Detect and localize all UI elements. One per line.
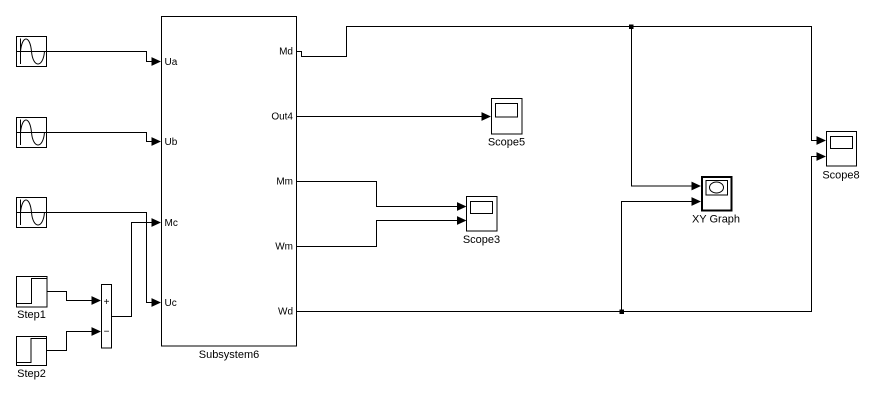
arrowhead into Ub port	[152, 137, 162, 146]
svg-text:Mc: Mc	[165, 218, 178, 229]
wire branch Md to XY Graph input1	[632, 27, 694, 187]
svg-text:XY Graph: XY Graph	[692, 214, 740, 226]
arrowhead into Scope8 input1	[817, 136, 827, 145]
svg-text:Wd: Wd	[278, 307, 293, 318]
junction node on Wd wire	[620, 310, 625, 315]
svg-text:Scope5: Scope5	[488, 137, 525, 149]
svg-text:−: −	[104, 327, 110, 338]
wire Sine1 to Ua	[47, 52, 154, 62]
scope block Scope5	[492, 99, 523, 135]
step source block Step1	[17, 277, 48, 308]
svg-text:Subsystem6: Subsystem6	[199, 349, 260, 361]
svg-text:Md: Md	[279, 47, 293, 58]
svg-text:Ua: Ua	[165, 57, 178, 68]
wire Sum output to Mc	[112, 223, 154, 317]
arrowhead into Uc port	[152, 298, 162, 307]
step source block Step2	[17, 337, 47, 366]
xy graph block	[702, 177, 732, 211]
arrowhead into Mc port	[152, 218, 162, 227]
svg-text:Out4: Out4	[271, 112, 293, 123]
svg-text:Uc: Uc	[165, 298, 177, 309]
svg-text:Wm: Wm	[275, 242, 293, 253]
sine wave source block Sine3	[17, 198, 47, 228]
wire Md to Scope8 input1 (top route)	[297, 27, 818, 141]
arrowhead into Sum plus input	[92, 296, 102, 305]
svg-text:Mm: Mm	[276, 177, 293, 188]
scope block Scope3	[467, 197, 498, 232]
subsystem block Subsystem6	[162, 17, 297, 347]
wire Sine3 to Uc (crosses down)	[47, 213, 154, 303]
junction node on Md wire	[629, 25, 634, 30]
wire branch Wd to XY Graph input2	[622, 202, 694, 312]
wire Step1 to Sum plus input	[47, 292, 93, 301]
svg-text:Ub: Ub	[165, 137, 178, 148]
sum block	[102, 285, 112, 349]
svg-text:Step1: Step1	[17, 309, 46, 321]
arrowhead into XY Graph input1	[692, 182, 702, 191]
arrowhead into Scope8 input2	[817, 152, 827, 161]
svg-text:Scope8: Scope8	[822, 170, 859, 182]
sine wave source block Sine2	[17, 118, 47, 148]
svg-text:Step2: Step2	[17, 368, 46, 380]
arrowhead into XY Graph input2	[692, 197, 702, 206]
wire Wm to Scope3 input2	[297, 221, 458, 247]
svg-text:+: +	[104, 297, 110, 308]
wire Wd to Scope8 input2	[297, 157, 818, 312]
arrowhead into Ua port	[152, 57, 162, 66]
arrowhead into Scope5 input	[482, 112, 492, 121]
wire Out4 to Scope5	[297, 116, 483, 118]
scope block Scope8	[827, 132, 857, 167]
wire Sine2 to Ub	[47, 133, 154, 142]
arrowhead into Scope3 input1	[457, 202, 467, 211]
arrowhead into Scope3 input2	[457, 216, 467, 225]
arrowhead into Sum minus input	[92, 327, 102, 336]
wire Mm to Scope3 input1	[297, 182, 458, 207]
svg-text:Scope3: Scope3	[463, 234, 500, 246]
sine wave source block Sine1	[17, 37, 47, 67]
wire Step2 to Sum minus input	[47, 332, 94, 351]
